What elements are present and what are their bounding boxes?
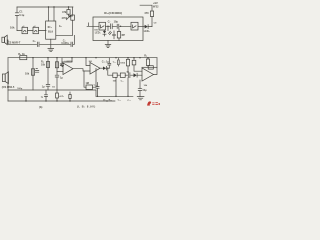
svg-text:R₉: R₉ — [144, 55, 147, 58]
resistor R2 — [69, 7, 73, 16]
feedback resistor op3 — [148, 66, 153, 69]
wire ground rail B — [96, 95, 133, 97]
wire supply rail — [8, 57, 157, 59]
svg-text:IC₁: IC₁ — [48, 25, 53, 29]
wire C2 to ground node — [40, 43, 70, 45]
nodes rail C — [25, 100, 26, 101]
wire output — [154, 58, 158, 75]
svg-text:10k: 10k — [25, 73, 30, 76]
gate U1b — [33, 27, 39, 33]
svg-text:R₁₀: R₁₀ — [109, 99, 112, 101]
op-amp IC3c — [142, 68, 154, 81]
gate U1a — [22, 27, 28, 33]
svg-text:LED₂: LED₂ — [144, 30, 150, 33]
capacitor C16 — [138, 80, 142, 97]
resistor R3 on right drop — [72, 7, 74, 15]
wire left vertical — [16, 7, 18, 31]
op-amp IC1 — [46, 21, 56, 39]
wire x26 stub — [25, 97, 27, 102]
resistor R8 — [127, 58, 129, 60]
branch x33 — [32, 58, 34, 90]
svg-text:(b): (b) — [39, 105, 42, 109]
wire IC1 right pin — [56, 34, 73, 36]
capacitor C8 — [113, 24, 131, 28]
node rail B x116 — [115, 96, 116, 97]
svg-text:10k: 10k — [10, 26, 15, 30]
feedback wire — [62, 58, 72, 62]
IC2 frame — [93, 17, 143, 41]
speaker BC1 — [2, 37, 5, 42]
diode D1 — [100, 67, 103, 69]
svg-text:C₁₄: C₁₄ — [121, 80, 125, 82]
resistor to op3 minus — [133, 58, 135, 61]
LED2 — [145, 25, 148, 29]
capacitor between rails x46 — [44, 90, 47, 101]
svg-text:470: 470 — [144, 11, 149, 15]
wire minus input op2 — [86, 58, 90, 66]
diode D2 — [134, 73, 137, 77]
svg-text:(L B: 8.9V): (L B: 8.9V) — [77, 104, 96, 108]
resistor on x48 — [46, 62, 49, 68]
svg-text:1M: 1M — [86, 82, 89, 85]
gate U2a — [99, 22, 106, 30]
photodiode arrows — [109, 31, 112, 34]
wire plus input — [57, 71, 63, 73]
svg-text:BL9: BL9 — [48, 30, 53, 34]
wire rail step — [95, 90, 97, 96]
wire IC1 pin2 to rail — [53, 7, 55, 21]
resistor R12 — [120, 73, 125, 77]
vertical x128 — [127, 78, 129, 97]
wire top-right rail — [140, 5, 152, 11]
wire top rail — [17, 6, 73, 8]
resistor R2b — [31, 69, 34, 75]
svg-text:10k: 10k — [41, 64, 46, 67]
capacitor C11 — [108, 58, 111, 68]
svg-text:C₁₅: C₁₅ — [118, 100, 122, 102]
capacitor C13 — [96, 83, 99, 97]
wire into frame — [87, 23, 99, 27]
wire node down — [107, 26, 109, 30]
wire lower path — [108, 68, 142, 75]
capacitor C6 — [55, 75, 59, 77]
wire IC1 bottom pin — [50, 39, 52, 44]
branch x57 — [56, 58, 58, 90]
gate U2b — [131, 22, 138, 30]
wire IC1 pin to rail — [48, 7, 50, 21]
wire out of frame — [138, 26, 145, 28]
svg-text:10μ: 10μ — [142, 89, 147, 92]
svg-text:100k: 100k — [120, 63, 126, 65]
capacitor C7 — [111, 24, 113, 29]
svg-text:LED₁: LED₁ — [95, 31, 101, 34]
wire op1 out to op2 — [73, 69, 90, 71]
wire ground rail A — [8, 89, 96, 91]
feedback resistor 1M — [84, 68, 96, 87]
svg-text:0.1μ: 0.1μ — [19, 14, 24, 17]
wire down from R3 — [72, 20, 74, 35]
node — [107, 26, 108, 27]
ground — [48, 44, 54, 51]
red logo mark — [147, 101, 151, 105]
svg-text:CS MXR-T: CS MXR-T — [8, 40, 21, 44]
wire input chain — [17, 30, 46, 32]
feedback wire op3 — [142, 66, 157, 68]
branch x48 — [47, 58, 49, 90]
capacitor C3b — [35, 68, 38, 72]
resistor between rails x57 — [56, 90, 58, 101]
rail nodes — [32, 57, 33, 58]
capacitor C15 polarized — [127, 72, 130, 78]
node at x68.5 — [68, 6, 69, 7]
svg-text:10μ: 10μ — [114, 21, 119, 24]
resistor R10 — [150, 11, 153, 17]
svg-text:IC₂(CD4069): IC₂(CD4069) — [104, 11, 122, 15]
red logo text — [152, 102, 160, 105]
capacitor at op-amp1 input — [60, 58, 63, 67]
svg-text:R₁ 1k: R₁ 1k — [18, 52, 25, 56]
svg-text:+9V: +9V — [153, 1, 158, 5]
svg-text:RP: RP — [122, 34, 126, 37]
ground under frame — [105, 41, 111, 48]
capacitor C12 — [118, 58, 120, 66]
wire left edge down — [7, 58, 9, 101]
svg-text:(CS M60-5: (CS M60-5 — [2, 85, 15, 89]
svg-text:C₁₆: C₁₆ — [127, 100, 130, 102]
op-amp IC3a — [63, 63, 73, 75]
ground right — [137, 97, 144, 100]
wire to C7 — [106, 25, 110, 27]
resistor RP — [117, 32, 120, 39]
node rail B x97.5 — [97, 96, 98, 97]
vertical x116 — [115, 77, 117, 96]
capacitor C10 — [113, 31, 116, 39]
node rail B x128 — [127, 96, 128, 97]
svg-text:47k: 47k — [62, 10, 67, 14]
capacitor C3 — [71, 35, 75, 46]
svg-text:C₁₂: C₁₂ — [113, 61, 116, 63]
node out — [107, 68, 108, 69]
svg-text:C₁₁ 1μ: C₁₁ 1μ — [102, 60, 110, 63]
capacitor C5 — [46, 84, 50, 86]
svg-text:6F22: 6F22 — [153, 6, 159, 9]
speaker BL — [2, 74, 5, 82]
svg-text:b₁: b₁ — [59, 24, 62, 28]
wire speaker to C2 — [7, 40, 36, 44]
resistor on x57 — [55, 62, 58, 68]
svg-text:C₁₃: C₁₃ — [94, 84, 98, 86]
potentiometer arrow — [66, 16, 70, 20]
node at x54 — [53, 6, 54, 7]
node — [120, 26, 121, 27]
resistor between rails x70 — [69, 92, 71, 101]
resistor R1b on rail — [20, 56, 27, 60]
resistor R11 — [113, 73, 117, 77]
capacitor C2 — [37, 42, 39, 46]
svg-text:C₇: C₇ — [108, 21, 111, 24]
op-amp IC3b — [90, 63, 100, 75]
wire bottom rail C — [8, 100, 115, 102]
wire R10 to LED2 — [151, 17, 153, 27]
node at x48 — [48, 6, 49, 7]
capacitor C1 — [15, 13, 18, 16]
